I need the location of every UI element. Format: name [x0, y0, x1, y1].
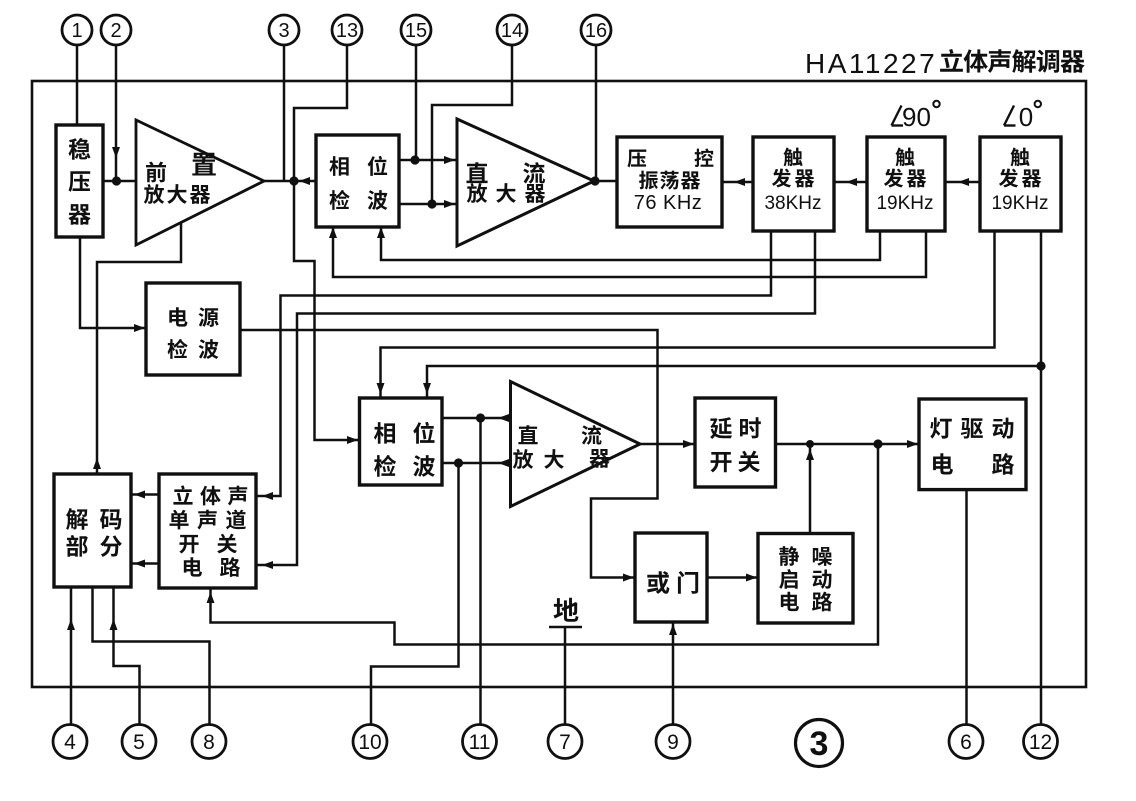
pin 2: [101, 15, 131, 45]
wire pin15 down: [415, 45, 418, 160]
pin 16: [581, 15, 611, 45]
wire decoder to pin8: [93, 587, 210, 724]
pin 1: [62, 15, 92, 45]
delay switch block 延时开关: [695, 398, 776, 487]
svg-text:90: 90: [902, 102, 931, 132]
label angle 0deg: [1004, 101, 1041, 132]
svg-text:5: 5: [133, 731, 145, 754]
wire pin1 to regulator: [76, 45, 79, 125]
svg-text:14: 14: [501, 20, 523, 42]
wire pin16 down: [595, 45, 598, 181]
dc amplifier 1 triangle 直流放大器: [457, 119, 594, 246]
svg-text:19KHz: 19KHz: [991, 193, 1048, 214]
trigger 19KHz block 2 触发器: [980, 137, 1061, 231]
svg-text:6: 6: [960, 731, 972, 754]
wire trigger19b left output to phase det2: [377, 231, 995, 398]
svg-text:HA11227: HA11227: [805, 48, 937, 79]
junction lamp node: [873, 439, 882, 448]
pin 9: [656, 725, 690, 759]
pin 4: [53, 725, 87, 759]
wire decoder to pin5: [110, 587, 140, 724]
wire pin2 to preamp input: [112, 45, 120, 181]
wire or gate to mute start: [707, 574, 758, 582]
junction mute feed node: [806, 440, 814, 448]
wire delay switch output to lamp driver: [776, 440, 920, 448]
svg-text:13: 13: [336, 20, 358, 42]
wire lamp driver to pin6: [965, 490, 968, 724]
svg-text:76 KHz: 76 KHz: [634, 192, 703, 214]
wire switch to decoder lower: [131, 560, 159, 568]
wire preamp feedback to decoder: [93, 223, 181, 474]
wire phase det1 lower output to dc amp 1: [399, 200, 457, 208]
wire dc amp1 output to vco: [594, 180, 617, 183]
trigger 19KHz block 1 触发器: [867, 137, 945, 231]
wire pin11 down: [479, 418, 482, 724]
svg-text:0: 0: [1019, 102, 1033, 132]
pin 7: [548, 725, 582, 759]
wire trigger38 left output to switch circuit: [256, 231, 771, 500]
decoder block 解码部分: [54, 474, 131, 587]
regulator block 稳压器: [56, 125, 103, 237]
lamp driver block 灯驱动电路: [919, 399, 1026, 490]
wire trigger19a to trigger19b: [945, 178, 980, 186]
pin 14: [497, 15, 527, 45]
junction preamp output node: [289, 176, 298, 185]
svg-text:3: 3: [278, 20, 289, 42]
phase detector 2 相位检波: [360, 398, 443, 485]
wire regulator to power detector: [80, 237, 146, 332]
wire ground to pin7: [564, 627, 567, 724]
junction dc amp1 output node: [590, 176, 599, 185]
pin 3: [269, 15, 299, 45]
preamp triangle 前置放大器: [136, 120, 264, 245]
svg-text:2: 2: [110, 20, 121, 42]
wire trigger38 to trigger19a: [834, 178, 867, 186]
svg-text:4: 4: [64, 731, 76, 754]
trigger 38KHz block 触发器: [753, 137, 834, 231]
wire trigger19b right output to phase det2 and pin12: [423, 231, 1041, 724]
wire feedback to stereo mono switch: [207, 444, 879, 645]
stereo mono switch block 立体声单声道开关电路: [159, 474, 256, 588]
pin 11: [463, 725, 497, 759]
svg-text:8: 8: [203, 731, 215, 754]
pin 6: [949, 725, 983, 759]
svg-text:16: 16: [585, 20, 607, 42]
junction pin12 node: [1036, 361, 1045, 370]
phase detector 1 相位检波: [316, 135, 399, 227]
wire power detector to or gate: [240, 330, 658, 582]
wire delay output to mute start top: [806, 444, 814, 534]
wire vco to trigger38: [722, 178, 753, 186]
wire switch to decoder upper: [131, 491, 159, 499]
wire pin14 jog down: [432, 45, 512, 204]
svg-text:12: 12: [1029, 731, 1052, 754]
figure number 3: [796, 720, 843, 767]
wire pin3 down: [283, 45, 286, 181]
title HA11227: [805, 48, 937, 79]
power detector block 电源检波: [146, 283, 240, 375]
svg-text:3: 3: [810, 725, 829, 763]
junction pin2 node: [112, 176, 121, 185]
wire pin10 jog down: [371, 463, 459, 724]
svg-text:11: 11: [469, 731, 491, 754]
wire preamp output to phase det 1: [264, 177, 316, 185]
vco block 压控振荡器 76KHz: [617, 137, 722, 227]
wire phase det2 lower output to dc amp 2: [442, 459, 511, 467]
pin 13: [332, 15, 362, 45]
wire trigger38 right output to switch circuit: [256, 231, 815, 569]
pin 12: [1024, 725, 1058, 759]
svg-text:7: 7: [559, 731, 571, 754]
label angle 90deg: [892, 101, 940, 132]
dc amplifier 2 triangle 直流放大器: [511, 382, 641, 507]
title 立体声解调器: [940, 49, 1085, 73]
IC outline border: [32, 81, 1086, 687]
wire phase det1 upper output to dc amp 1: [399, 156, 457, 164]
pin 8: [192, 725, 226, 759]
junction pin14 node: [427, 199, 436, 208]
svg-text:38KHz: 38KHz: [764, 193, 821, 214]
pin 5: [122, 725, 156, 759]
wire pin9 to or gate: [669, 622, 677, 724]
svg-text:10: 10: [358, 731, 381, 754]
wire trigger19a right output to phase det1 feedback: [329, 227, 926, 277]
svg-text:1: 1: [71, 20, 82, 42]
svg-text:9: 9: [667, 731, 679, 754]
pin 15: [401, 15, 431, 45]
wire pin13 to preamp output node: [294, 45, 347, 181]
ground symbol 地: [549, 598, 582, 627]
svg-text:15: 15: [405, 20, 427, 42]
junction pin11 node: [476, 413, 485, 422]
wire preamp output node to phase det 2 input: [294, 181, 360, 444]
pin 10: [353, 725, 387, 759]
or gate block 或门: [635, 533, 707, 622]
mute start block 静噪启动电路: [758, 534, 853, 624]
junction pin15 node: [410, 155, 419, 164]
wire decoder to pin4: [67, 587, 75, 724]
wire dc amp2 output to delay switch: [640, 440, 695, 448]
wire phase det2 upper output to dc amp 2: [442, 414, 511, 422]
junction pin10 node: [454, 458, 463, 467]
wire regulator to preamp: [103, 180, 136, 183]
wire trigger19a left output to phase det1 feedback: [377, 227, 880, 260]
svg-text:19KHz: 19KHz: [876, 193, 933, 214]
